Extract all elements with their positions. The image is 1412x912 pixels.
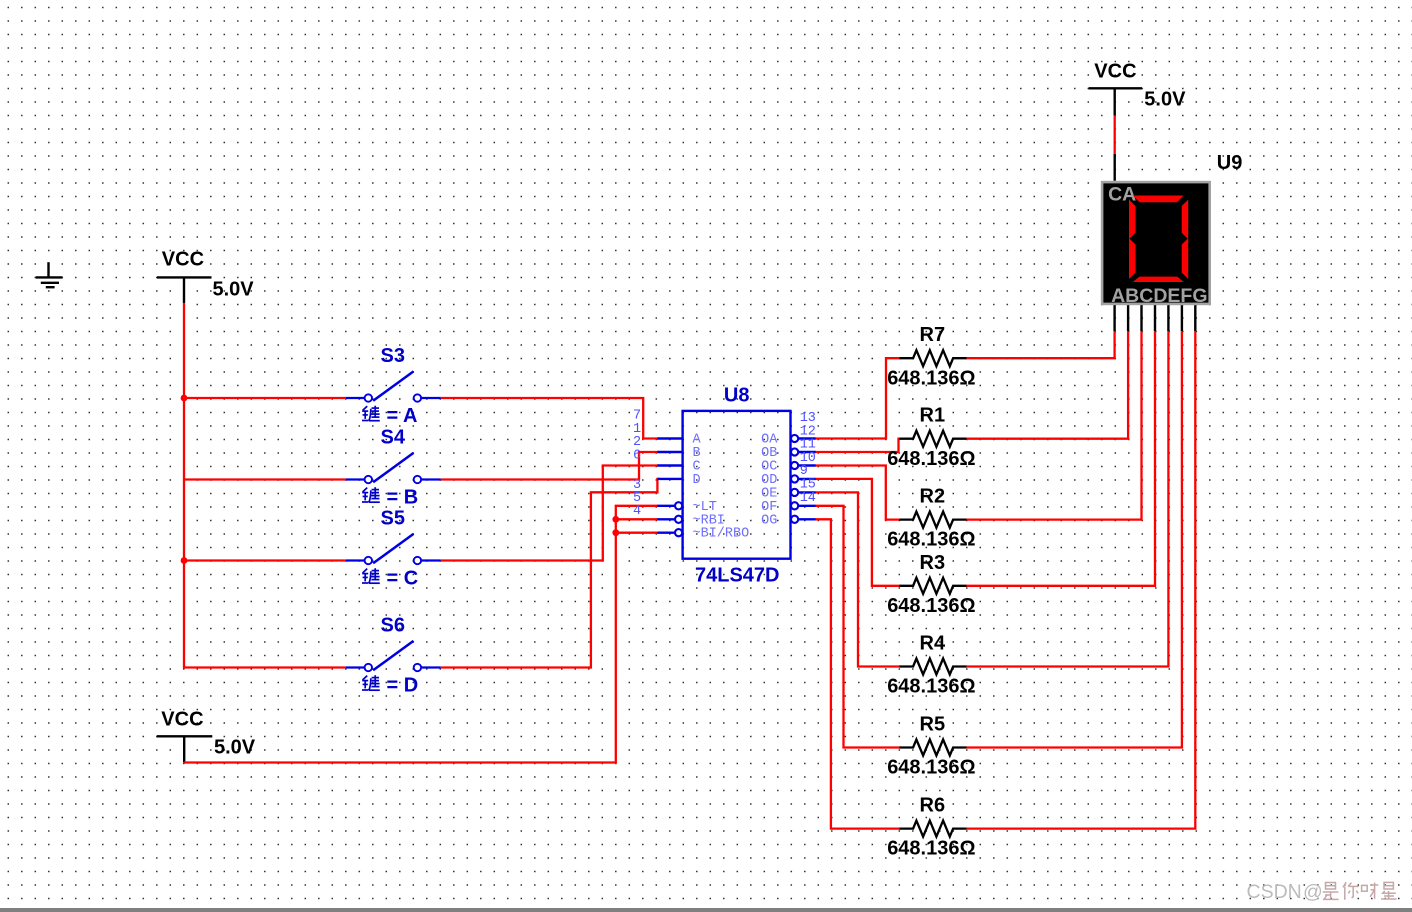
wire R2 to display pin C xyxy=(967,331,1142,519)
wire VCC to display CA xyxy=(1114,115,1116,153)
svg-text:U8: U8 xyxy=(724,385,750,407)
resistor R6 xyxy=(900,821,967,837)
middle notch right xyxy=(1174,232,1188,246)
wire R6 to display pin G xyxy=(967,331,1196,828)
wire S3 branch xyxy=(184,397,346,399)
resistor R3 xyxy=(900,578,967,594)
pin OG stub xyxy=(791,516,816,523)
wire R1 to display pin B xyxy=(967,331,1129,439)
svg-text:648.136Ω: 648.136Ω xyxy=(887,757,975,779)
seven-segment display U9 body xyxy=(1102,182,1210,304)
pin ~BI/RBO stub xyxy=(657,529,682,536)
svg-text:648.136Ω: 648.136Ω xyxy=(887,367,975,389)
resistor R4 xyxy=(900,659,967,675)
svg-text:CA: CA xyxy=(1108,183,1136,205)
node junction RBI xyxy=(612,516,619,523)
wire OD to R3 xyxy=(816,479,901,586)
segments f+e (left bar) xyxy=(1129,200,1136,280)
wire R3 to display pin D xyxy=(967,331,1156,586)
svg-text:= A: = A xyxy=(387,405,418,427)
op chip U8 74LS47D xyxy=(683,411,791,559)
switch S5 xyxy=(346,534,441,564)
wire OF to R5 xyxy=(816,506,901,748)
svg-text:R6: R6 xyxy=(920,795,946,817)
svg-text:5.0V: 5.0V xyxy=(213,279,255,301)
segment d (bottom) xyxy=(1133,277,1184,282)
svg-text:VCC: VCC xyxy=(162,248,204,270)
svg-text:R1: R1 xyxy=(920,405,946,427)
VCC source bottom-left xyxy=(157,736,213,762)
display pin B stub xyxy=(1127,305,1129,331)
VCC source top-left xyxy=(157,277,212,303)
display pin G stub xyxy=(1194,305,1196,331)
wire R5 to display pin F xyxy=(967,331,1182,747)
svg-text:S6: S6 xyxy=(381,615,405,637)
svg-text:= B: = B xyxy=(387,486,419,508)
svg-text:= C: = C xyxy=(387,567,419,589)
wire branch ~RBI xyxy=(616,518,659,520)
svg-text:R5: R5 xyxy=(920,714,946,736)
svg-text:648.136Ω: 648.136Ω xyxy=(887,838,975,860)
switch S6 xyxy=(346,641,441,671)
svg-text:CSDN: CSDN xyxy=(1247,881,1302,903)
pin OE stub xyxy=(791,489,816,496)
svg-text:5.0V: 5.0V xyxy=(1144,88,1186,110)
middle notch left xyxy=(1130,232,1144,246)
svg-text:= D: = D xyxy=(387,674,419,696)
pin C stub xyxy=(657,464,682,466)
svg-text:R3: R3 xyxy=(920,552,946,574)
svg-text:S3: S3 xyxy=(381,345,405,367)
wire S3 to U8 pin A xyxy=(441,398,659,439)
pin ~LT stub xyxy=(657,502,682,509)
svg-text:648.136Ω: 648.136Ω xyxy=(887,595,975,617)
pin B stub xyxy=(657,451,682,453)
resistor R5 xyxy=(900,740,967,756)
svg-text:VCC: VCC xyxy=(1094,61,1136,83)
display pin A stub xyxy=(1113,305,1115,331)
resistor R1 xyxy=(900,431,967,447)
bottom scrollbar strip xyxy=(0,908,1412,912)
svg-text:648.136Ω: 648.136Ω xyxy=(887,448,975,470)
resistor R2 xyxy=(900,512,967,528)
display pin C stub xyxy=(1140,305,1142,331)
node junction S5 xyxy=(181,557,188,564)
svg-text:S4: S4 xyxy=(381,427,406,449)
display pin F stub xyxy=(1181,305,1183,331)
svg-text:S5: S5 xyxy=(381,508,405,530)
pin ~RBI stub xyxy=(657,516,682,523)
svg-text:R4: R4 xyxy=(920,633,946,655)
switch S3 xyxy=(346,371,441,401)
display pin E stub xyxy=(1167,305,1169,331)
wire OG to R6 xyxy=(816,519,901,828)
pin OF stub xyxy=(791,502,816,509)
node junction BI/RBO xyxy=(612,529,619,536)
switch S4 xyxy=(346,453,441,483)
svg-text:74LS47D: 74LS47D xyxy=(695,565,780,587)
pin D stub xyxy=(657,478,682,480)
VCC source top-right xyxy=(1089,88,1142,115)
wire VCC2 to U8 ~LT xyxy=(184,506,658,763)
wire OC to R2 xyxy=(816,466,901,520)
ground xyxy=(36,262,63,287)
wire S4 branch xyxy=(184,478,346,480)
wire R7 to display pin A xyxy=(967,331,1115,358)
svg-text:~BI/RBO: ~BI/RBO xyxy=(693,527,750,542)
svg-text:ABCDEFG: ABCDEFG xyxy=(1111,285,1207,307)
svg-text:648.136Ω: 648.136Ω xyxy=(887,676,975,698)
pin A stub xyxy=(657,437,682,439)
node junction S3 xyxy=(181,395,188,402)
wire S5 branch xyxy=(184,559,346,561)
display pin D stub xyxy=(1154,305,1156,331)
wire OB to R1 xyxy=(816,439,901,452)
display CA pin stub xyxy=(1113,154,1115,181)
segment a (top) xyxy=(1133,196,1184,203)
wire VCC rail left xyxy=(184,303,346,667)
svg-text:@: @ xyxy=(1303,881,1323,903)
svg-text:U9: U9 xyxy=(1217,152,1243,174)
svg-text:6: 6 xyxy=(633,449,641,464)
wire S6 to U8 pin D xyxy=(441,479,660,668)
wire branch ~BI/RBO xyxy=(616,532,659,534)
svg-text:R7: R7 xyxy=(920,324,946,346)
wire OA to R7 xyxy=(816,358,901,438)
pin OC stub xyxy=(791,462,816,469)
wire R4 to display pin E xyxy=(967,331,1169,666)
wire OE to R4 xyxy=(816,492,901,666)
svg-text:14: 14 xyxy=(800,491,816,506)
pin OB stub xyxy=(791,448,816,455)
svg-text:D: D xyxy=(693,473,701,488)
wire S5 to U8 pin C xyxy=(441,466,659,561)
watermark chinese chars xyxy=(1323,882,1397,899)
svg-text:OG: OG xyxy=(761,513,777,528)
svg-text:5.0V: 5.0V xyxy=(214,737,256,759)
svg-text:VCC: VCC xyxy=(161,709,203,731)
svg-text:4: 4 xyxy=(633,504,641,519)
wire S4 to U8 pin B xyxy=(441,452,659,480)
segments b+c (right bar) xyxy=(1182,200,1189,280)
pin OD stub xyxy=(791,475,816,482)
svg-text:R2: R2 xyxy=(920,486,946,508)
pin OA stub xyxy=(791,435,816,442)
svg-text:648.136Ω: 648.136Ω xyxy=(887,529,975,551)
resistor R7 xyxy=(900,350,967,366)
